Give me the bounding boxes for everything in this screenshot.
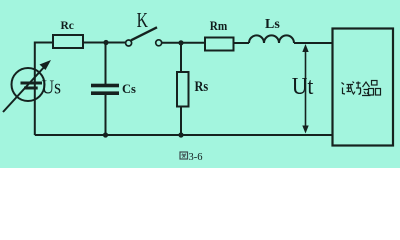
label Us <box>42 77 62 99</box>
wire: switch to node B <box>162 42 205 44</box>
svg-text:3-6: 3-6 <box>189 152 203 163</box>
svg-text:Rm: Rm <box>210 18 228 33</box>
label Rc <box>61 20 74 32</box>
resistor Rs <box>177 72 189 107</box>
resistor Rm <box>205 38 234 51</box>
wire: Rc to node A <box>83 42 126 44</box>
wire: bottom rail <box>35 134 333 136</box>
label Rs <box>195 78 209 94</box>
label Cs <box>122 82 136 96</box>
inductor Ls <box>249 35 294 43</box>
node B (top of Rs) <box>178 40 183 45</box>
voltage arrow Ut (double headed) <box>302 44 308 134</box>
label 试验品 (hand drawn strokes) <box>342 81 381 96</box>
svg-text:Ls: Ls <box>265 17 280 32</box>
node A (top of Cs) <box>103 40 108 45</box>
label Rm <box>210 18 228 33</box>
test object box (试验品) <box>333 29 394 146</box>
resistor Rs branch wire bottom <box>180 107 182 136</box>
capacitor Cs branch wire top <box>105 43 107 85</box>
wire: Rm to Ls <box>234 42 250 44</box>
svg-text:Cs: Cs <box>122 82 136 96</box>
capacitor Cs <box>91 84 119 95</box>
node D (bottom of Rs) <box>178 132 183 137</box>
caption 图3-6 <box>180 152 203 163</box>
resistor Rc <box>53 35 83 48</box>
capacitor Cs branch wire bottom <box>105 94 107 135</box>
svg-text:Us: Us <box>42 77 62 99</box>
label Ut <box>292 73 314 99</box>
switch K <box>126 27 162 46</box>
wire: left branch and top-left rail <box>35 43 53 136</box>
label K <box>137 9 149 33</box>
resistor Rs branch wire top <box>180 43 182 73</box>
node C (bottom of Cs) <box>103 132 108 137</box>
svg-text:Rc: Rc <box>61 20 74 32</box>
wire: Ls to test object <box>294 42 333 44</box>
svg-text:Ut: Ut <box>292 73 314 99</box>
svg-text:K: K <box>137 9 149 33</box>
source Us (variable DC source) <box>3 60 51 112</box>
label Ls <box>265 17 280 32</box>
svg-text:Rs: Rs <box>195 78 209 94</box>
